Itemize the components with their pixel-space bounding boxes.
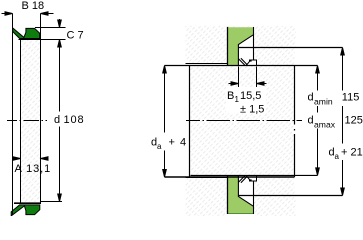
svg-text:1: 1 [235, 95, 240, 104]
dimension C 7 [19, 19, 66, 47]
dimension A 13,1 [13, 157, 48, 161]
svg-text:± 1,5: ± 1,5 [240, 104, 264, 116]
seal lip stripe lower [239, 176, 248, 183]
washer notch lower [250, 179, 252, 181]
housing band bottom edge left of seal [186, 63, 228, 65]
dimension d 108 [41, 45, 63, 202]
seal pocket right vertical lower [253, 181, 255, 214]
svg-text:d: d [308, 92, 314, 104]
seal lip stripe upper [239, 58, 248, 65]
lower housing band hatch right of seal (mirror) [254, 196, 296, 217]
svg-text:+ 21: + 21 [341, 147, 363, 159]
seal body right edge [40, 14, 42, 203]
housing band top edge left of seal (mirror) [186, 177, 228, 179]
housing band hatch right of seal [254, 26, 296, 48]
svg-text:d: d [54, 114, 60, 126]
counterface wall line upper [227, 27, 229, 66]
hatch strip above upper seal [228, 26, 254, 28]
dimension da + 4 [163, 66, 167, 178]
shaft hatched rectangle [190, 66, 295, 178]
svg-text:B 18: B 18 [22, 0, 45, 12]
shoulder diameter line lower (mirror) [239, 195, 343, 197]
svg-text:4: 4 [180, 137, 186, 149]
shaft bottom surface line [165, 176, 295, 178]
svg-text:+: + [169, 137, 175, 149]
svg-text:C 7: C 7 [67, 30, 84, 42]
svg-text:a: a [157, 142, 162, 151]
svg-text:amin: amin [314, 96, 333, 106]
damin 115 label [303, 91, 363, 107]
damax 125 label [303, 113, 342, 129]
dimension 115 / 125 vertical line [341, 48, 345, 196]
mounted V-ring upper (light green) [228, 27, 253, 65]
shaft bottom inner line [191, 174, 318, 176]
V-ring seal upper cross-section profile (green) [13, 28, 40, 39]
svg-text:d: d [308, 115, 314, 127]
housing band hatch between shoulder line and shaft (top) [254, 48, 295, 66]
svg-text:115: 115 [342, 92, 360, 104]
dimension damin / damax vertical line [316, 66, 320, 176]
dimension B 18 [2, 12, 54, 16]
centerline left drawing [7, 120, 47, 122]
shaft top surface line [165, 65, 318, 67]
housing band hatch left of seal [186, 26, 228, 64]
seal body left edge [20, 39, 22, 203]
washer notch upper [250, 60, 252, 62]
dimension B1 15,5 +-1,5 [229, 67, 267, 89]
mounted V-ring lower (light green, mirror) [228, 176, 253, 214]
shoulder diameter line upper [239, 47, 343, 49]
shaft left edge [189, 66, 191, 178]
counterface wall line lower [227, 176, 229, 215]
clamping washer profile upper [246, 60, 256, 66]
svg-text:B: B [227, 90, 234, 102]
seal body hatched column [21, 39, 41, 202]
clamping washer profile lower [246, 176, 256, 182]
bottom seal flat top bold line [14, 202, 41, 204]
centerline right drawing [186, 120, 302, 122]
shaft right edge [294, 66, 296, 125]
svg-text:15,5: 15,5 [240, 90, 261, 102]
svg-text:amax: amax [314, 119, 336, 129]
V-ring seal lower cross-section profile (green, mirror) [11, 205, 40, 216]
seal bore edge line [12, 14, 14, 215]
da + 21 label [324, 144, 363, 161]
svg-text:125: 125 [345, 115, 363, 127]
lower housing band hatch left of seal (mirror) [186, 178, 228, 216]
svg-text:A 13,1: A 13,1 [15, 163, 52, 175]
svg-text:a: a [335, 152, 340, 161]
seal pocket right vertical upper [253, 27, 255, 60]
svg-text:108: 108 [64, 114, 85, 126]
housing band hatch between shaft and shoulder line (bottom) [254, 177, 295, 196]
